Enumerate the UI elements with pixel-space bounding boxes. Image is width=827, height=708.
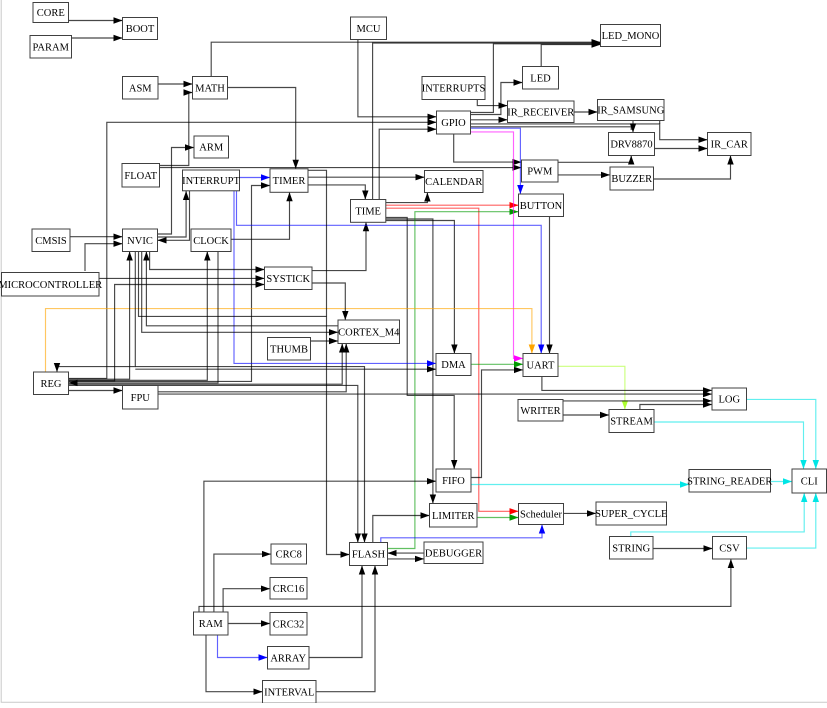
svg-text:CRC16: CRC16 (273, 584, 305, 595)
svg-text:DRV8870: DRV8870 (610, 140, 652, 151)
svg-text:INTERRUPTS: INTERRUPTS (422, 84, 486, 95)
svg-text:SYSTICK: SYSTICK (266, 274, 310, 285)
svg-text:NVIC: NVIC (127, 236, 153, 247)
svg-text:IR_SAMSUNG: IR_SAMSUNG (597, 106, 665, 117)
svg-text:PARAM: PARAM (33, 42, 70, 53)
svg-text:THUMB: THUMB (270, 344, 308, 355)
svg-text:Scheduler: Scheduler (520, 510, 562, 521)
svg-text:TIME: TIME (355, 206, 381, 217)
svg-text:LIMITER: LIMITER (432, 511, 475, 522)
svg-text:LED_MONO: LED_MONO (602, 31, 660, 42)
svg-text:ARM: ARM (199, 143, 224, 154)
svg-text:CLI: CLI (801, 477, 818, 488)
svg-text:UART: UART (527, 361, 556, 372)
svg-text:CMSIS: CMSIS (35, 236, 67, 247)
svg-text:SUPER_CYCLE: SUPER_CYCLE (595, 509, 667, 520)
svg-text:CORE: CORE (37, 8, 65, 19)
svg-text:MATH: MATH (195, 83, 225, 94)
svg-text:BUTTON: BUTTON (520, 201, 563, 212)
svg-text:RAM: RAM (199, 619, 224, 630)
svg-text:TIMER: TIMER (273, 176, 306, 187)
svg-text:WRITER: WRITER (520, 406, 560, 417)
svg-text:BOOT: BOOT (126, 24, 155, 35)
svg-text:ASM: ASM (129, 83, 152, 94)
svg-text:FIFO: FIFO (442, 476, 465, 487)
svg-text:MCU: MCU (357, 24, 381, 35)
svg-text:INTERRUPT: INTERRUPT (182, 176, 240, 187)
svg-text:PWM: PWM (527, 167, 553, 178)
svg-text:CRC32: CRC32 (273, 619, 305, 630)
svg-text:ARRAY: ARRAY (270, 653, 306, 664)
svg-text:CORTEX_M4: CORTEX_M4 (338, 327, 400, 338)
svg-text:FPU: FPU (131, 393, 151, 404)
svg-text:LOG: LOG (718, 395, 740, 406)
svg-text:CLOCK: CLOCK (193, 236, 229, 247)
svg-text:CSV: CSV (719, 543, 740, 554)
svg-text:FLOAT: FLOAT (124, 171, 157, 182)
svg-text:MICROCONTROLLER: MICROCONTROLLER (0, 280, 102, 291)
svg-text:LED: LED (530, 73, 551, 84)
svg-text:REG: REG (41, 379, 62, 390)
svg-text:DEBUGGER: DEBUGGER (425, 548, 482, 559)
svg-text:GPIO: GPIO (441, 118, 466, 129)
svg-text:STRING_READER: STRING_READER (687, 476, 772, 487)
svg-text:DMA: DMA (441, 360, 466, 371)
svg-text:CALENDAR: CALENDAR (425, 177, 482, 188)
svg-text:STRING: STRING (612, 543, 650, 554)
svg-text:STREAM: STREAM (610, 417, 653, 428)
svg-text:FLASH: FLASH (352, 550, 386, 561)
svg-text:CRC8: CRC8 (276, 550, 302, 561)
svg-text:IR_RECEIVER: IR_RECEIVER (507, 107, 574, 118)
svg-text:BUZZER: BUZZER (611, 174, 652, 185)
svg-text:INTERVAL: INTERVAL (264, 687, 314, 698)
svg-text:IR_CAR: IR_CAR (711, 140, 748, 151)
